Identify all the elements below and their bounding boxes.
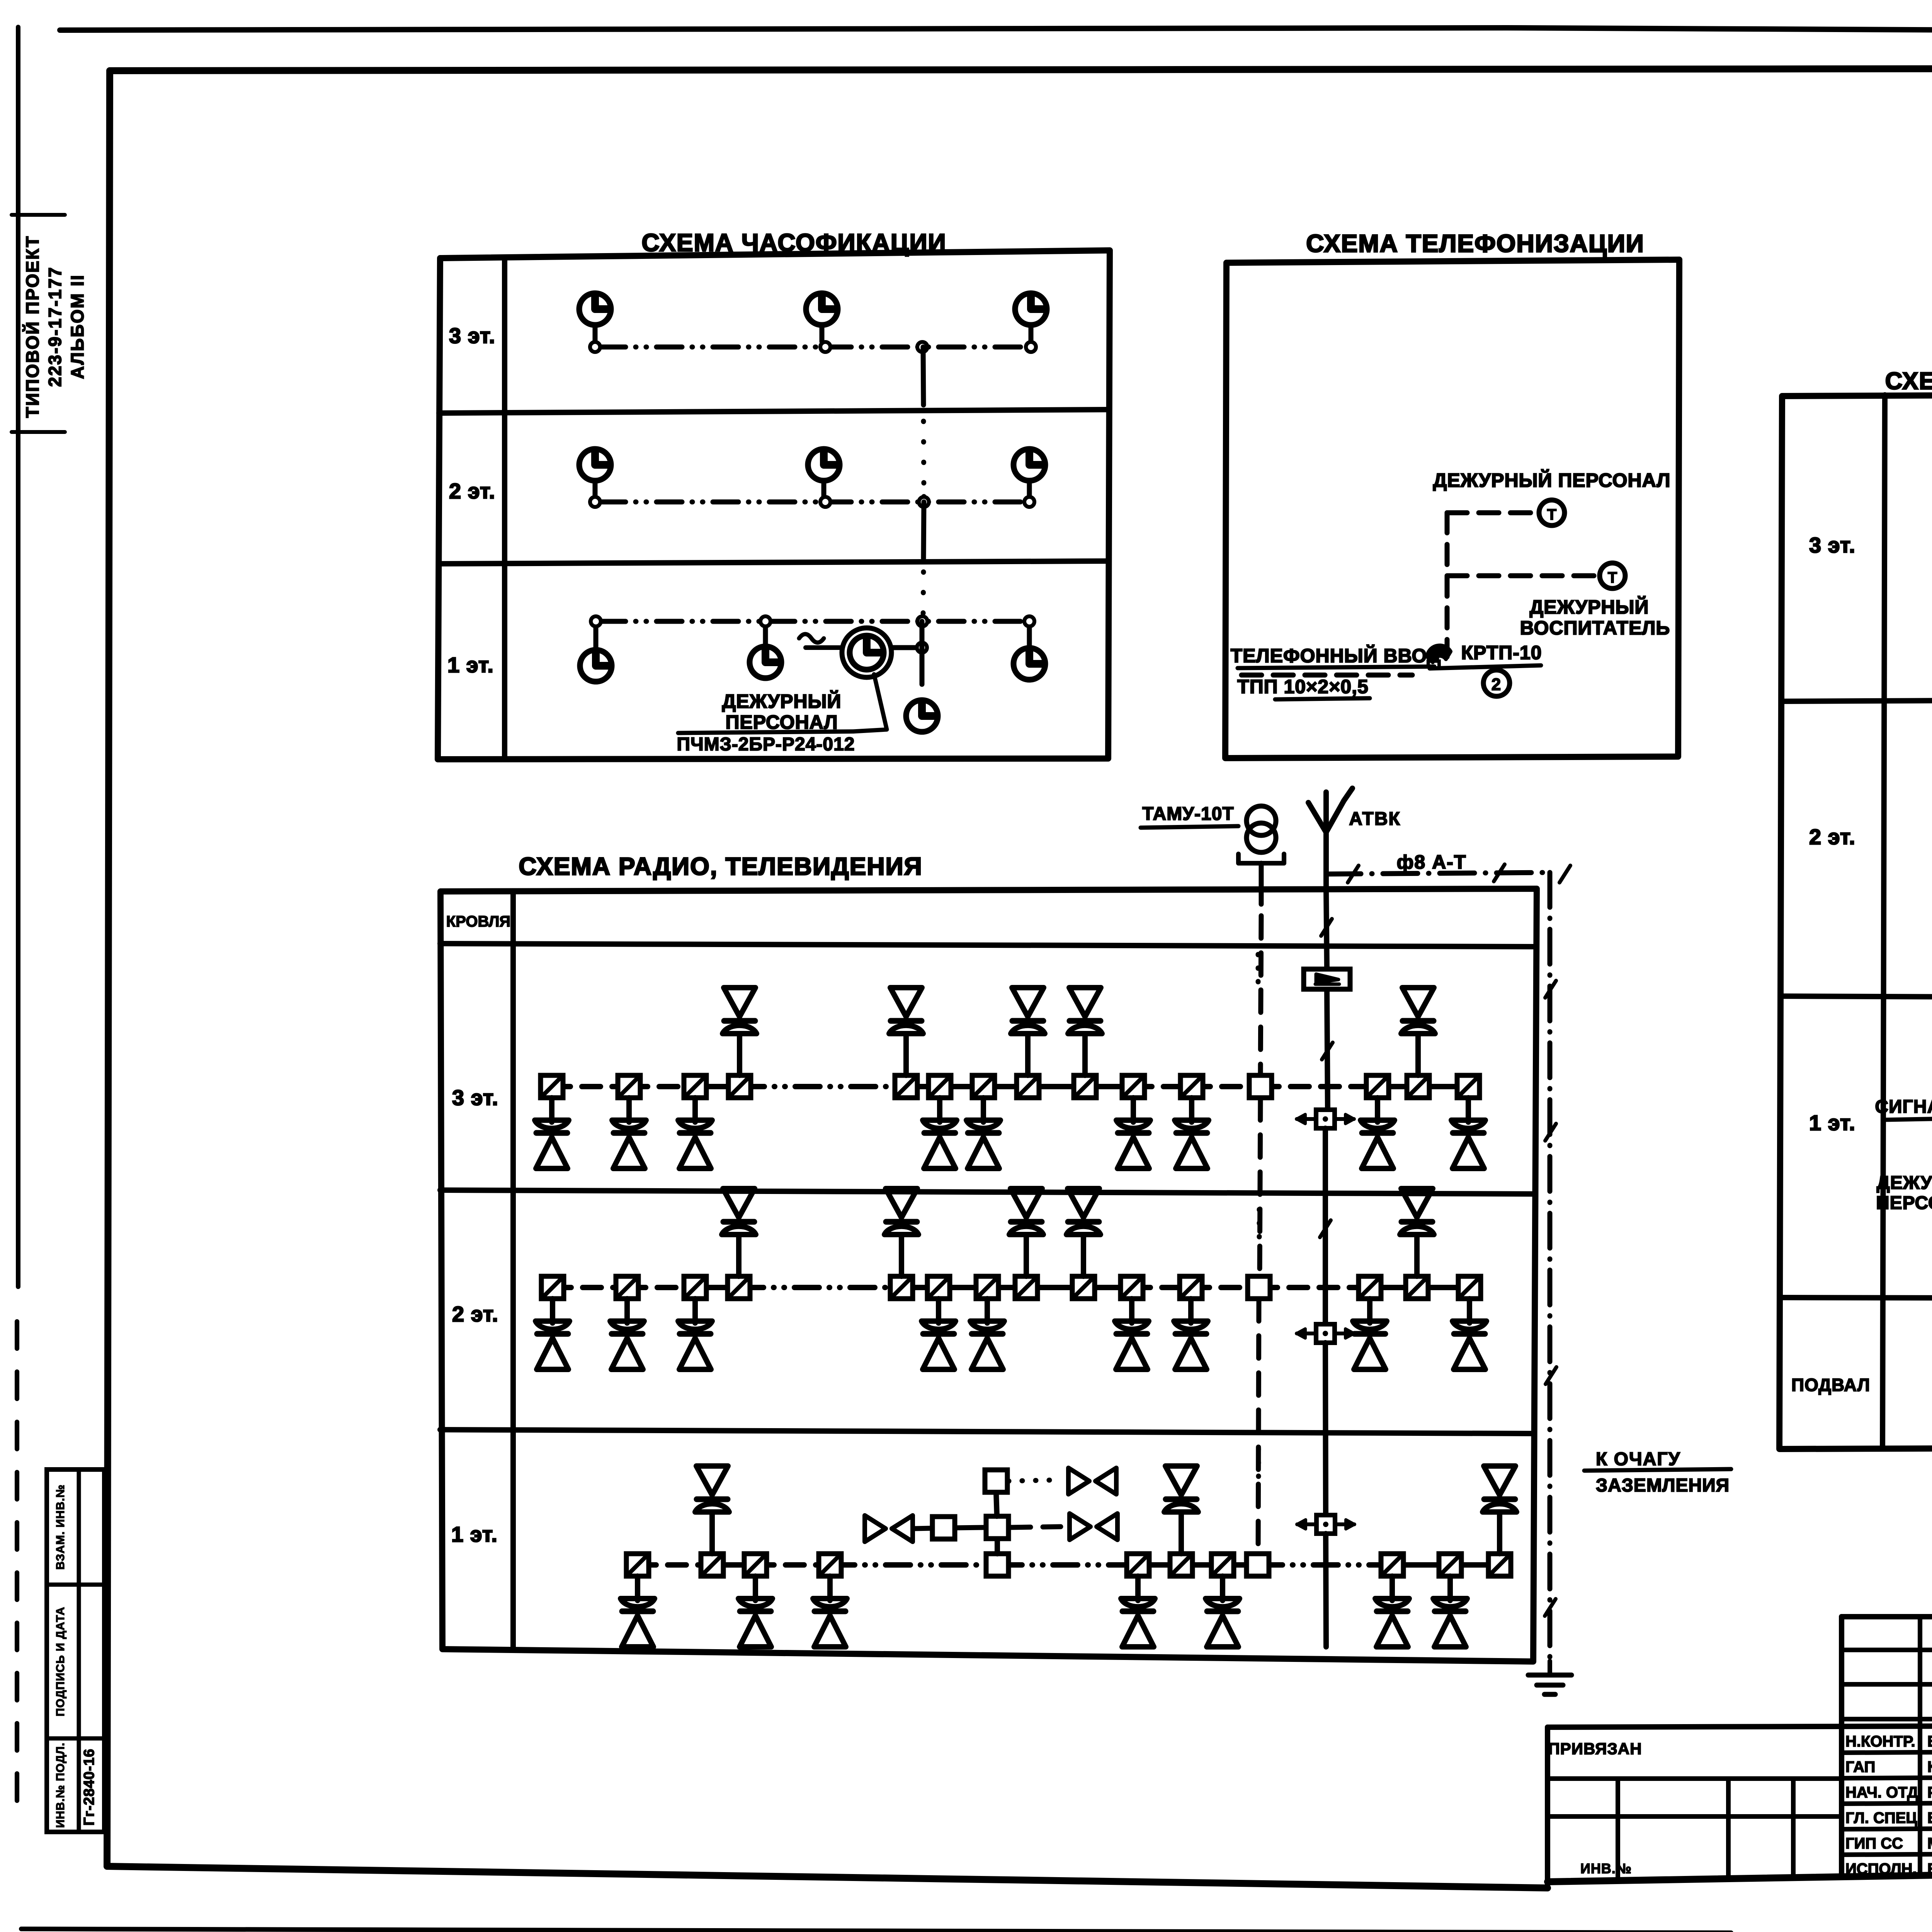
wire [937, 1098, 942, 1122]
fire table frame [1779, 393, 1932, 1449]
wire [1028, 1084, 1085, 1089]
svg-text:ГЛ. СПЕЦ.: ГЛ. СПЕЦ. [1845, 1810, 1922, 1827]
svg-text:НАЧ. ОТД: НАЧ. ОТД [1845, 1784, 1918, 1801]
node [919, 497, 929, 507]
wire [1192, 1084, 1260, 1089]
radio socket [1457, 1075, 1480, 1098]
radio socket [701, 1554, 723, 1576]
TAMU riser floor2->1 [1258, 1299, 1259, 1554]
wire [629, 1084, 695, 1089]
wire [1450, 1562, 1500, 1568]
junction box [985, 1470, 1007, 1492]
junction box [1249, 1075, 1272, 1098]
sheet outer border top [60, 28, 1507, 30]
wire [985, 1299, 990, 1323]
junction box [986, 1516, 1009, 1539]
loudspeaker [1068, 1189, 1099, 1218]
wire [1414, 1235, 1420, 1276]
antenna trunk [1323, 1128, 1328, 1324]
svg-text:ТЕЛЕФОННЫЙ ВВОД: ТЕЛЕФОННЫЙ ВВОД [1231, 645, 1441, 667]
radio socket [1458, 1276, 1481, 1299]
telephone T2 [1600, 563, 1625, 588]
wire [1415, 1034, 1421, 1075]
radio socket [1180, 1276, 1202, 1299]
tv branch wire [995, 1527, 1000, 1554]
loudspeaker [966, 1120, 1000, 1128]
antenna feeder to ground loop [1326, 872, 1550, 874]
clock line floor 1 [600, 619, 1025, 624]
svg-text:СИГНАЛ-12М: СИГНАЛ-12М [1875, 1097, 1932, 1117]
wire [626, 1098, 632, 1122]
svg-text:ДЕЖУРНЫЙ: ДЕЖУРНЫЙ [722, 690, 842, 712]
svg-text:ПЕРСОНАЛ: ПЕРСОНАЛ [1876, 1193, 1932, 1213]
tv antenna plug [1068, 1468, 1089, 1494]
clock table label column [502, 258, 507, 759]
clock line floor 3 [600, 345, 1026, 350]
svg-text:МЕГЛОВ: МЕГЛОВ [1927, 1835, 1932, 1852]
wire dotted [1256, 1449, 1261, 1480]
wire [755, 1562, 830, 1568]
wire [983, 1084, 1028, 1089]
radio floor dividers [440, 944, 1536, 947]
svg-text:1 эт.: 1 эт. [447, 653, 494, 677]
svg-text:ЗАЗЕМЛЕНИЯ: ЗАЗЕМЛЕНИЯ [1596, 1475, 1730, 1496]
antenna trunk [1325, 1343, 1326, 1515]
wire [1081, 1235, 1086, 1276]
wire to T2 [1447, 573, 1596, 578]
loudspeaker [678, 1321, 712, 1329]
svg-text:ПОДВАЛ: ПОДВАЛ [1791, 1375, 1870, 1395]
svg-text:КАМАЙ: КАМАЙ [1927, 1758, 1932, 1776]
wire [939, 1285, 987, 1290]
wire [692, 1299, 698, 1323]
wire dotted [1009, 1480, 1059, 1481]
svg-text:1 эт.: 1 эт. [1809, 1111, 1855, 1135]
wire [1025, 1034, 1031, 1075]
svg-text:ГИП СС: ГИП СС [1845, 1835, 1903, 1852]
clock K [808, 449, 840, 481]
loudspeaker [723, 1189, 755, 1218]
wire [1191, 1285, 1259, 1290]
loudspeaker [1451, 1120, 1485, 1128]
radio socket [1072, 1276, 1095, 1299]
node [760, 616, 770, 626]
drawing frame [110, 68, 1932, 71]
node [1026, 342, 1036, 352]
wire [638, 1562, 712, 1568]
junction box [932, 1517, 955, 1539]
svg-text:Гг-2840-16: Гг-2840-16 [81, 1748, 97, 1825]
wire dotted [1257, 1209, 1262, 1240]
node [590, 497, 600, 507]
wire [997, 1562, 1138, 1568]
svg-text:2 эт.: 2 эт. [449, 479, 495, 503]
wire [624, 1299, 630, 1323]
junction box [1247, 1554, 1269, 1576]
loudspeaker [923, 1120, 957, 1128]
clock riser floor2->1 [923, 502, 924, 558]
node [1024, 497, 1034, 507]
loudspeaker [1115, 1321, 1149, 1329]
radio socket [1366, 1075, 1389, 1098]
wire [899, 1235, 904, 1276]
row ИСПОЛН. [1842, 1853, 1932, 1855]
svg-text:ГАП: ГАП [1845, 1759, 1875, 1776]
radio socket [1359, 1276, 1381, 1299]
loudspeaker [1361, 1120, 1395, 1128]
loudspeaker [1012, 988, 1044, 1017]
wire [739, 1285, 901, 1290]
splitter floor 2 [1316, 1324, 1335, 1343]
svg-text:2 эт.: 2 эт. [452, 1302, 498, 1326]
wire [1129, 1299, 1134, 1323]
loudspeaker [1165, 1466, 1197, 1495]
svg-text:СХЕМА ПОЖАРНОЙ СИГНАЛИЗАЦИИ: СХЕМА ПОЖАРНОЙ СИГНАЛИЗАЦИИ [1885, 367, 1932, 395]
loudspeaker [890, 988, 922, 1017]
title block: upper mini table [1842, 1614, 1932, 1619]
radio socket [728, 1075, 751, 1098]
radio socket [1127, 1554, 1149, 1576]
left margin stamp: project id (vertical) [12, 213, 65, 217]
wire [1220, 1576, 1225, 1600]
wire dotted [1256, 954, 1261, 987]
wire [1132, 1285, 1191, 1290]
node [820, 497, 830, 507]
loudspeaker [1402, 988, 1434, 1017]
radio socket [976, 1276, 998, 1299]
wire [1370, 1285, 1417, 1290]
wire [1138, 1562, 1181, 1568]
clock K [750, 646, 781, 678]
TAMU riser floor3->2 [1260, 1098, 1260, 1276]
row НАЧ. ОТД [1842, 1777, 1932, 1778]
leader line [853, 674, 887, 731]
junction box [986, 1554, 1009, 1576]
radio socket [616, 1276, 638, 1299]
radio socket [895, 1075, 917, 1098]
clock table frame [438, 250, 1110, 759]
wire [549, 1098, 554, 1122]
row ГАП [1842, 1751, 1932, 1753]
telephone frame [1225, 260, 1679, 758]
sheet outer border left [16, 27, 20, 1287]
antenna trunk [1327, 990, 1328, 1110]
radio socket [728, 1276, 750, 1299]
wire [1024, 1235, 1029, 1276]
wire [981, 1098, 986, 1122]
fire floor dividers [1781, 698, 1932, 701]
clock riser floor3->2 [923, 347, 923, 405]
wire [1135, 1576, 1141, 1600]
antenna trunk [1326, 889, 1327, 968]
wire [1367, 1299, 1372, 1323]
svg-text:ВЗАМ. ИНВ.№: ВЗАМ. ИНВ.№ [54, 1484, 67, 1570]
svg-text:АЛЬБОМ II: АЛЬБОМ II [67, 274, 87, 379]
loudspeaker [1069, 988, 1101, 1017]
wire [550, 1299, 555, 1323]
left margin block: inv table [47, 1469, 104, 1832]
title block: rows [1548, 1724, 1932, 1727]
radio socket [618, 1075, 640, 1098]
wire [1026, 1285, 1083, 1290]
loudspeaker [621, 1599, 655, 1607]
wire [1260, 1084, 1378, 1089]
wire [1389, 1576, 1395, 1600]
radio socket [684, 1075, 706, 1098]
svg-text:БОРОДКИН: БОРОДКИН [1927, 1733, 1932, 1750]
wire [695, 1084, 740, 1089]
svg-text:Т: Т [1547, 506, 1556, 523]
svg-text:2 эт.: 2 эт. [1809, 825, 1855, 849]
svg-text:ф8 А-Т: ф8 А-Т [1397, 851, 1467, 873]
wire [635, 1576, 640, 1600]
radio socket [1381, 1554, 1403, 1576]
sheet outer border bottom [21, 1929, 1731, 1932]
loudspeaker [535, 1120, 569, 1128]
radio socket [890, 1276, 913, 1299]
wire [913, 1528, 932, 1529]
svg-text:ИСПОЛН.: ИСПОЛН. [1845, 1861, 1917, 1878]
radio socket [972, 1075, 995, 1098]
loudspeaker [536, 1321, 570, 1329]
node [820, 342, 830, 352]
radio table frame [440, 889, 1537, 1662]
wire [1418, 1084, 1468, 1089]
loudspeaker [1121, 1599, 1155, 1607]
radio socket [1211, 1554, 1234, 1576]
node [917, 616, 927, 626]
svg-text:ИНВ.№ ПОДЛ.: ИНВ.№ ПОДЛ. [54, 1742, 67, 1828]
wire [1181, 1562, 1223, 1568]
radio socket [1074, 1075, 1096, 1098]
amplifier [1304, 969, 1350, 989]
AC supply squiggle [799, 634, 824, 643]
fire label column [1883, 395, 1885, 1448]
loudspeaker [1353, 1321, 1387, 1329]
wire [1259, 1285, 1370, 1290]
loudspeaker [1174, 1321, 1208, 1329]
radio socket [1488, 1554, 1511, 1576]
svg-text:223-9-17-177: 223-9-17-177 [45, 266, 65, 387]
wire [552, 1084, 629, 1089]
svg-text:ИНВ.№: ИНВ.№ [1580, 1861, 1632, 1876]
ground electrode [1548, 1661, 1552, 1675]
tv antenna plug [1070, 1514, 1090, 1540]
wire [906, 1084, 940, 1089]
svg-text:ПОДПИСЬ И ДАТА: ПОДПИСЬ И ДАТА [54, 1607, 67, 1716]
svg-text:3 эт.: 3 эт. [1809, 533, 1855, 557]
loudspeaker [813, 1599, 847, 1607]
loudspeaker [1452, 1321, 1486, 1329]
riser to floor clock [920, 621, 925, 684]
svg-text:3 эт.: 3 эт. [452, 1085, 498, 1110]
wire [1417, 1285, 1469, 1290]
wire [1467, 1299, 1472, 1323]
radio socket [1407, 1075, 1429, 1098]
telephone T1 [1539, 500, 1565, 526]
loudspeaker [612, 1120, 646, 1128]
svg-text:3 эт.: 3 эт. [449, 323, 495, 348]
loudspeaker [696, 1466, 728, 1495]
svg-text:Т: Т [1608, 569, 1617, 586]
svg-text:ЕЛИСЕЕВА: ЕЛИСЕЕВА [1927, 1861, 1932, 1878]
entry cable [1242, 673, 1412, 678]
node [917, 643, 927, 653]
antenna ATVK [1323, 792, 1329, 889]
wire [1131, 1098, 1136, 1122]
wire [1082, 1034, 1088, 1075]
loudspeaker [1401, 1189, 1433, 1218]
radio socket [1121, 1276, 1143, 1299]
attachment grid [1548, 1776, 1842, 1781]
wire [1085, 1084, 1133, 1089]
radio socket [626, 1554, 649, 1576]
radio socket [819, 1554, 841, 1576]
loudspeaker [724, 988, 755, 1017]
wire [901, 1285, 939, 1290]
clock K [1015, 293, 1047, 325]
loudspeaker [1375, 1599, 1409, 1607]
wire [1392, 1562, 1450, 1568]
loudspeaker [1206, 1599, 1240, 1607]
svg-text:ПЧМЗ-2БР-Р24-012: ПЧМЗ-2БР-Р24-012 [677, 734, 855, 755]
loudspeaker [610, 1321, 644, 1329]
radio socket [541, 1276, 564, 1299]
radio socket [744, 1554, 767, 1576]
clock table floor dividers [439, 410, 1109, 413]
wire [695, 1285, 739, 1290]
svg-text:1 эт.: 1 эт. [451, 1522, 498, 1546]
svg-text:К ОЧАГУ: К ОЧАГУ [1596, 1449, 1680, 1469]
clock K [580, 650, 612, 682]
antenna trunk tail [1326, 1534, 1326, 1647]
wire [1223, 1562, 1258, 1568]
wire [1447, 1576, 1453, 1600]
wire [1188, 1299, 1194, 1323]
duty-personnel master clock [842, 628, 891, 677]
loudspeaker [922, 1321, 956, 1329]
radio socket [1170, 1554, 1192, 1576]
radio socket [1180, 1075, 1203, 1098]
svg-text:2: 2 [1492, 675, 1502, 694]
node [917, 342, 927, 352]
wire [712, 1562, 755, 1568]
wire [830, 1562, 997, 1568]
radio socket [684, 1276, 706, 1299]
row ГИП СС [1842, 1828, 1932, 1829]
wire [1258, 1562, 1392, 1568]
wire [1189, 1098, 1194, 1122]
wire [1466, 1098, 1471, 1122]
wire [692, 1098, 698, 1122]
wire [936, 1299, 941, 1323]
splitter floor 1 [1316, 1515, 1335, 1534]
svg-text:КРОВЛЯ: КРОВЛЯ [446, 913, 510, 930]
loudspeaker [1175, 1120, 1209, 1128]
wire [827, 1576, 833, 1600]
loudspeaker [1116, 1120, 1150, 1128]
radio socket [929, 1075, 951, 1098]
svg-text:ТАМУ-10Т: ТАМУ-10Т [1142, 804, 1234, 824]
radio socket [927, 1276, 950, 1299]
loudspeaker [1010, 1189, 1042, 1218]
telephone riser [1445, 513, 1450, 657]
wire [987, 1285, 1026, 1290]
radio socket [1015, 1276, 1037, 1299]
radio socket [541, 1075, 563, 1098]
junction box [1248, 1276, 1270, 1299]
radio socket [1439, 1554, 1461, 1576]
clock K [579, 449, 611, 481]
svg-text:ТПП 10×2×0,5: ТПП 10×2×0,5 [1237, 676, 1369, 697]
svg-text:АТВК: АТВК [1349, 809, 1401, 829]
wire [940, 1084, 983, 1089]
wire to T1 [1447, 510, 1535, 515]
svg-text:КРТП-10: КРТП-10 [1461, 642, 1542, 663]
wire [903, 1034, 909, 1075]
clock K [579, 293, 611, 325]
node [591, 616, 601, 626]
radio socket [1122, 1075, 1145, 1098]
loudspeaker [886, 1189, 917, 1218]
splitter floor 3 [1316, 1110, 1335, 1128]
radio label column [510, 891, 516, 1650]
svg-text:ДЕЖУРНЫЙ ПЕРСОНАЛ: ДЕЖУРНЫЙ ПЕРСОНАЛ [1433, 469, 1671, 491]
svg-text:ДЕЖУРНЫЙ: ДЕЖУРНЫЙ [1530, 596, 1649, 618]
wire [736, 1235, 742, 1276]
wire [1179, 1512, 1184, 1554]
wire [753, 1576, 758, 1600]
loudspeaker [1433, 1599, 1467, 1607]
clock K [806, 293, 838, 325]
svg-text:БОРОДКИН: БОРОДКИН [1927, 1810, 1932, 1827]
wire [1375, 1098, 1380, 1122]
svg-text:СХЕМА РАДИО, ТЕЛЕВИДЕНИЯ: СХЕМА РАДИО, ТЕЛЕВИДЕНИЯ [519, 852, 922, 880]
wire [1378, 1084, 1418, 1089]
clock K [906, 700, 938, 732]
node [590, 342, 600, 352]
wire [1497, 1512, 1502, 1554]
loudspeaker [678, 1120, 712, 1128]
loudspeaker [970, 1321, 1004, 1329]
TAMU feeder (dashed riser) [1259, 863, 1264, 904]
svg-text:Н.КОНТР.: Н.КОНТР. [1845, 1733, 1915, 1750]
clock line floor 2 [600, 500, 1024, 505]
wire master clock to riser [892, 645, 922, 650]
distribution box 2 [1483, 670, 1510, 696]
wire [955, 1527, 986, 1528]
wire [1133, 1084, 1192, 1089]
svg-text:ВОСПИТАТЕЛЬ: ВОСПИТАТЕЛЬ [1520, 617, 1670, 639]
clock K [1014, 648, 1045, 680]
radio socket [1017, 1075, 1039, 1098]
wire [553, 1285, 627, 1290]
wire dashed [1010, 1527, 1061, 1527]
wire [709, 1512, 715, 1554]
svg-text:СХЕМА ТЕЛЕФОНИЗАЦИИ: СХЕМА ТЕЛЕФОНИЗАЦИИ [1306, 230, 1645, 257]
svg-text:ДЕЖУРНЫЙ: ДЕЖУРНЫЙ [1877, 1172, 1932, 1193]
svg-text:РОМАНОВ: РОМАНОВ [1927, 1784, 1932, 1801]
wire [1083, 1285, 1132, 1290]
wire [740, 1084, 906, 1089]
wire [737, 1034, 742, 1075]
svg-text:ТИПОВОЙ ПРОЕКТ: ТИПОВОЙ ПРОЕКТ [22, 235, 43, 418]
loudspeaker [1484, 1466, 1515, 1495]
cable entry sleeve [1427, 646, 1451, 662]
clock K [1014, 449, 1045, 481]
radio socket [1406, 1276, 1428, 1299]
wire [627, 1285, 695, 1290]
